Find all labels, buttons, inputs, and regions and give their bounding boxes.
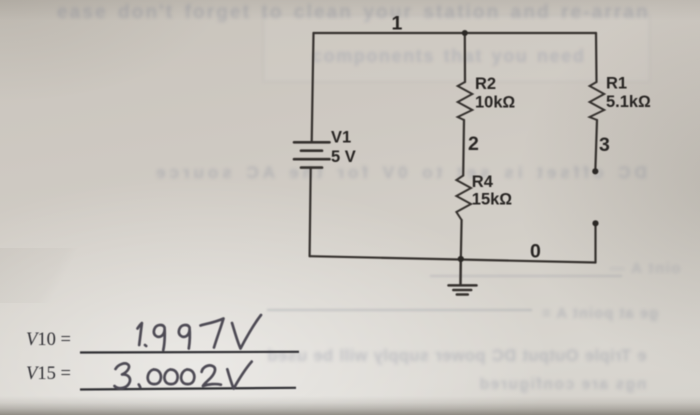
svg-text:1: 1	[392, 13, 403, 35]
resistor R2	[458, 82, 473, 120]
wire right lower	[594, 225, 596, 263]
wire bottom node 0	[310, 256, 596, 262]
bleed-through line 1	[57, 2, 650, 24]
battery V1	[294, 142, 330, 167]
wire left upper	[312, 33, 314, 142]
svg-text:10kΩ: 10kΩ	[475, 94, 516, 112]
terminal dot node 3 upper	[592, 168, 598, 174]
svg-text:R2: R2	[475, 75, 496, 93]
svg-text:R1: R1	[606, 75, 627, 93]
svg-text:3: 3	[599, 134, 610, 156]
bleed-through point A	[608, 260, 681, 277]
junction dot ground	[458, 256, 464, 262]
svg-text:V10 =: V10 =	[26, 330, 71, 350]
junction dot node 1	[462, 30, 468, 36]
svg-text:15kΩ: 15kΩ	[472, 191, 513, 209]
bleed-through box	[263, 15, 650, 82]
resistor R1	[590, 82, 605, 120]
bleed-through mirrored mid line	[152, 163, 647, 183]
bleed-through underscore line 2	[430, 275, 622, 277]
bleed-through line 2	[312, 46, 585, 67]
wire middle between R2 and R4	[462, 120, 465, 176]
wire middle lower	[460, 220, 463, 259]
handwriting 1.997V	[138, 323, 142, 345]
wire right upper	[595, 33, 598, 82]
svg-text:0: 0	[530, 241, 541, 263]
ground	[449, 259, 477, 295]
bleed-through age at point	[541, 306, 658, 322]
bleed-through triple output	[267, 347, 646, 366]
bleed-through underscore line	[267, 309, 532, 311]
svg-text:5 V: 5 V	[331, 148, 356, 166]
svg-text:2: 2	[468, 133, 479, 155]
handwriting 3.0002V	[115, 363, 131, 388]
wire right between R1 and node 3 terminal	[595, 120, 597, 169]
bleed-through configured	[478, 376, 646, 394]
wire left lower	[310, 168, 311, 257]
terminal dot lower	[592, 220, 598, 226]
svg-text:V1: V1	[331, 129, 351, 147]
paper crease bottom-left	[0, 248, 130, 303]
wire top node 1	[314, 32, 597, 34]
resistor R4	[456, 176, 471, 221]
answer underline 2	[80, 388, 296, 390]
svg-text:R4: R4	[472, 173, 494, 191]
answer underline 1	[80, 351, 299, 354]
wire middle upper	[464, 33, 466, 82]
svg-text:5.1kΩ: 5.1kΩ	[606, 93, 651, 111]
svg-text:V15 =: V15 =	[26, 364, 71, 384]
